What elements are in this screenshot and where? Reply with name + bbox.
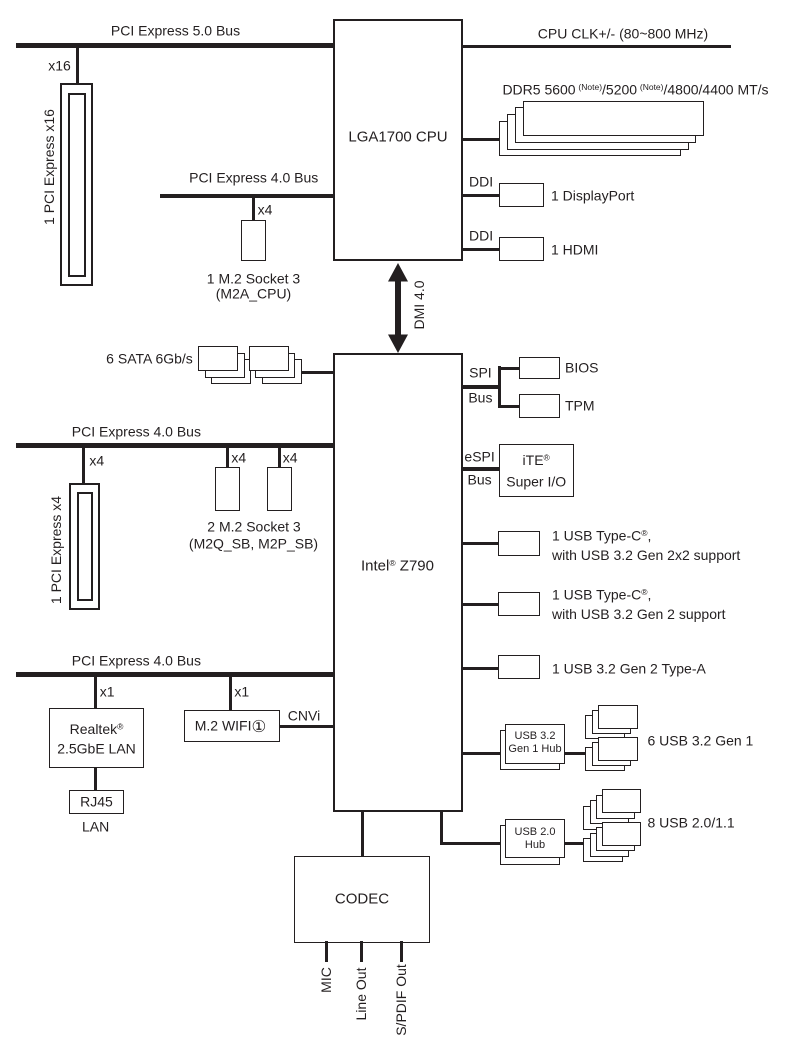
RJ45 box (69, 790, 124, 814)
label TPM (565, 396, 595, 416)
SATA group2 box1 (249, 346, 289, 371)
label MIC (rotated) (318, 967, 334, 993)
wire drop to M.2 socket M2Q (226, 448, 229, 468)
M.2 socket M2Q box (215, 467, 240, 511)
wire Z790 bottom to USB2 hub vertical (440, 812, 443, 845)
USB 2.0 hub back box (500, 825, 561, 865)
wire to TPM (499, 405, 519, 408)
label DDI (HDMI) (469, 226, 493, 246)
label CODEC (335, 889, 389, 909)
wire CNVi (280, 725, 333, 728)
memory module 2 (515, 107, 697, 142)
wire DDI DisplayPort (463, 194, 499, 197)
CPU box LGA1700 (333, 19, 463, 261)
wire eSPI bus (463, 467, 499, 471)
wire Z790 to CODEC (361, 812, 364, 856)
DMI 4.0 arrow (388, 263, 408, 353)
label iTE Super I/O (506, 447, 566, 492)
label 6 USB 3.2 Gen 1 (648, 731, 754, 751)
label USB Type-C Gen2 (552, 583, 726, 625)
M.2 socket M2P box (267, 467, 292, 511)
USB2 connector stack A box2 (596, 795, 635, 819)
USB 3.2 Gen2 Type-A box (498, 655, 540, 679)
label 1 PCI Express x4 (rotated) (48, 496, 64, 604)
wire drop to M.2 socket M2A (252, 198, 255, 220)
bus PCI Express 4.0 (mid) (16, 443, 333, 448)
TPM box (519, 394, 560, 419)
USB2 connector stack B box1 (602, 822, 641, 846)
label PCI Express 5.0 Bus (111, 21, 240, 41)
label M.2 WIFI (195, 716, 267, 736)
label eSPI (464, 448, 494, 468)
SATA group1 box2 (205, 353, 245, 378)
wire Z790 to USB3 hub (463, 752, 500, 755)
label PCI Express 4.0 Bus (CPU) (189, 168, 318, 188)
USB 3.2 Gen1 hub back box (500, 730, 561, 770)
label USB 2.0 Hub (515, 826, 556, 852)
wire drop to PCIe x4 slot (82, 448, 85, 484)
label 8 USB 2.0/1.1 (648, 814, 735, 834)
label (M2Q_SB, M2P_SB) (189, 534, 318, 554)
label x4 (slot) (89, 451, 104, 471)
label Realtek 2.5GbE LAN (57, 718, 136, 760)
bus PCI Express 4.0 (CPU) (160, 194, 334, 199)
PCIe x4 slot inner (77, 492, 93, 601)
label LAN (82, 817, 109, 837)
USB Type-C 2x2 box (498, 531, 540, 556)
SATA group2 box2 (255, 353, 295, 378)
label CPU CLK+/- (80~800 MHz) (538, 24, 708, 44)
wire CPU CLK (463, 45, 731, 48)
label x4 (M2P) (283, 449, 298, 469)
wire MIC (325, 941, 328, 962)
USB3 connector stack A box1 (598, 705, 638, 729)
wire to BIOS (499, 367, 519, 370)
iTE Super I/O box (499, 444, 574, 497)
memory module 4 (back) (499, 121, 681, 156)
SATA group2 box3 (262, 359, 302, 384)
USB3 connector stack A box3 (585, 715, 625, 739)
label USB 3.2 Gen 1 Hub (508, 730, 561, 756)
wire SATA to Z790 (297, 371, 333, 374)
memory module 1 (front) (523, 101, 705, 137)
SATA group1 box1 (198, 346, 238, 371)
label PCI Express 4.0 Bus (bottom) (72, 651, 201, 671)
label S/PDIF Out (rotated) (393, 965, 409, 1037)
label 2 M.2 Socket 3 (207, 517, 300, 537)
label 6 SATA 6Gb/s (106, 349, 193, 369)
USB3 connector stack B box2 (592, 742, 632, 766)
label x4 (M2A) (258, 200, 273, 220)
M.2 socket M2A box (241, 220, 266, 261)
wire DDI HDMI (463, 248, 499, 251)
wire drop x1 to LAN (94, 677, 97, 709)
memory module 3 (507, 114, 689, 150)
label LGA1700 CPU (348, 127, 447, 147)
wire SPI vertical (498, 366, 501, 408)
label PCI Express 4.0 Bus (mid) (72, 422, 201, 442)
USB 3.2 Gen1 hub front box (505, 724, 565, 764)
label RJ45 (80, 792, 113, 812)
label Bus (eSPI) (468, 470, 492, 490)
Z790 chipset box (333, 353, 463, 812)
wire drop to PCIe x16 slot (76, 47, 79, 84)
DisplayPort box (499, 183, 544, 207)
wire drop to M.2 socket M2P (278, 448, 281, 468)
USB3 connector stack B box1 (598, 737, 638, 761)
wire hub to USB3 connectors (565, 752, 585, 755)
label (M2A_CPU) (216, 284, 291, 304)
label Bus (SPI) (468, 388, 492, 408)
USB2 connector stack A box1 (602, 789, 641, 813)
wire USB Type-C 2x2 (463, 542, 498, 545)
USB2 connector stack B box3 (590, 833, 629, 857)
PCIe x16 slot inner (68, 93, 86, 277)
PCIe x4 slot outer (69, 483, 100, 610)
label x1 (WIFI) (234, 682, 249, 702)
wire Line Out (360, 941, 363, 962)
wire to USB2 hub horizontal (440, 842, 500, 845)
USB Type-C Gen2 box (498, 592, 540, 616)
label x16 (48, 56, 71, 76)
label Intel Z790 (361, 554, 434, 576)
wire hub to USB2 connectors (565, 842, 584, 845)
BIOS box (519, 357, 560, 380)
PCIe x16 slot outer (60, 83, 93, 286)
M.2 WIFI box (184, 710, 280, 742)
Realtek LAN box (49, 708, 144, 768)
label DDI (DisplayPort) (469, 172, 493, 192)
wire USB Type-C Gen2 (463, 603, 498, 606)
wire Realtek to RJ45 (94, 768, 97, 790)
label Line Out (rotated) (353, 967, 369, 1020)
wire SPDIF Out (400, 941, 403, 962)
label SPI (469, 363, 492, 383)
USB 2.0 hub front box (505, 819, 565, 859)
SATA group1 box3 (211, 359, 251, 384)
wire USB 3.2 Gen2 Type-A (463, 667, 498, 670)
label 1 DisplayPort (551, 186, 634, 206)
CODEC box (294, 856, 430, 943)
label USB Type-C 2x2 (552, 524, 740, 566)
wire CPU to memory (463, 138, 500, 141)
HDMI box (499, 237, 544, 261)
bus PCI Express 4.0 (bottom) (16, 672, 333, 677)
label DDR5 speeds (502, 78, 768, 100)
label 1 USB 3.2 Gen 2 Type-A (552, 659, 706, 679)
label 1 HDMI (551, 240, 598, 260)
label 1 M.2 Socket 3 (207, 269, 300, 289)
label CNVi (288, 706, 320, 726)
wire drop x1 to WIFI (229, 677, 232, 711)
USB2 connector stack B box2 (596, 827, 635, 851)
USB2 connector stack A box3 (590, 800, 629, 824)
USB3 connector stack B box3 (585, 747, 625, 771)
bus PCI Express 5.0 (16, 43, 333, 48)
USB3 connector stack A box2 (592, 710, 632, 734)
label x1 (LAN) (100, 682, 115, 702)
USB2 connector stack A box4 (583, 806, 622, 830)
label x4 (M2Q) (231, 449, 246, 469)
label BIOS (565, 358, 598, 378)
wire SPI bus (463, 385, 500, 389)
label DMI 4.0 (rotated) (411, 281, 427, 330)
USB2 connector stack B box4 (583, 838, 622, 862)
label 1 PCI Express x16 (rotated) (41, 109, 57, 225)
